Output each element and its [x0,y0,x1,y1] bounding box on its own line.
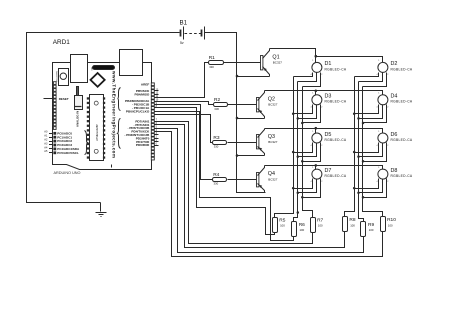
pin number 1 of D7 [312,167,314,169]
label R8 [349,217,355,223]
junction: row 2 at D3 anode [315,90,318,93]
wire: arduino pin 9 to R3 [159,115,213,143]
wire: right column blue bus to R10 [363,87,383,217]
svg-text:BC327: BC327 [268,103,278,107]
svg-text:Q1: Q1 [272,54,279,60]
rgb led D4 (RGBLED-CA) [378,95,388,105]
wire: D5 cathode pin 4 to column bus 1 [294,143,313,153]
svg-text:D3: D3 [325,94,332,100]
arduino right pin labels group PB [125,82,150,113]
svg-text:AREF: AREF [141,82,150,86]
wire: D2 cathode pin 2 to column bus 3 [363,73,387,87]
svg-text:RGBLED-CA: RGBLED-CA [325,100,347,104]
value label BC327 for Q4 [268,177,278,181]
cathode pin numbers of D7 [311,181,324,184]
value label RGBLED-CA for D4 [391,100,413,104]
rgb led D8 (RGBLED-CA) [378,169,388,179]
svg-text:R9: R9 [368,222,374,228]
wire: Q2 emitter to +5V rail [237,118,265,120]
arduino power jack [120,50,143,76]
arduino ATMEGA328P chip [90,95,104,161]
value label 100 for R10 [388,223,393,227]
wire: D8 cathode pin 3 to column bus 2 [359,179,383,193]
label D3 [325,94,332,100]
wire: D6 cathode pin 2 to column bus 3 [363,143,387,162]
wire: arduino pin 11 to R1 [159,63,209,98]
pin number 1 of D6 [378,131,380,133]
label R6 [299,222,305,228]
arduino logo diamond [91,73,105,87]
wire: D1 cathode pin 3 to column bus 2 [298,73,317,82]
arduino reference label ARD1 [53,39,70,46]
value label BC327 for Q2 [268,103,278,107]
svg-text:R8: R8 [349,217,355,223]
svg-text:ANALOG IN: ANALOG IN [75,111,79,127]
svg-text:RGBLED-CA: RGBLED-CA [325,174,347,178]
label D2 [391,61,398,67]
svg-text:R10: R10 [387,217,396,223]
cathode pin numbers of D2 [377,74,390,77]
wire: D1 cathode pin 2 to column bus 3 [303,73,321,87]
rgb led D6 (RGBLED-CA) [378,133,388,143]
resistor R2 (330) [214,103,228,107]
wire: arduino pin 7 to R5 bottom [159,108,275,235]
svg-text:BC327: BC327 [268,177,278,181]
wire: arduino pin 2 to R10 bottom [159,132,383,257]
svg-text:RGBLED-CA: RGBLED-CA [325,138,347,142]
svg-text:100: 100 [350,223,355,227]
svg-text:RGBLED-CA: RGBLED-CA [391,67,413,71]
arduino right header pins [151,83,154,160]
value label BC327 for Q1 [273,61,283,65]
rgb led D2 (RGBLED-CA) [378,62,388,72]
arduino ANALOG IN label [75,111,79,127]
label D8 [391,168,398,174]
svg-text:RGBLED-CA: RGBLED-CA [325,67,347,71]
arduino USB connector [71,55,88,83]
arduino right pin labels group PD [124,119,150,147]
svg-text:ARDUINO UNO: ARDUINO UNO [54,171,81,175]
svg-text:330: 330 [214,107,219,111]
resistor R9 (100) [361,222,366,237]
value label RGBLED-CA for D6 [391,138,413,142]
wire: R4 to Q4 base [228,179,257,181]
svg-text:Q2: Q2 [268,96,275,102]
svg-text:100: 100 [369,228,374,232]
wire: Q1 emitter to +5V rail [237,76,270,78]
value label 100 for R6 [300,228,305,232]
svg-text:100: 100 [318,224,323,228]
wire: D1 anode stub [315,57,317,63]
value label 100 for R5 [280,224,285,228]
rgb led D1 (RGBLED-CA) [312,62,322,72]
label R1 [209,55,215,61]
wire: left column red bus to R5 [275,77,294,218]
svg-text:B1: B1 [180,19,188,26]
value label RGBLED-CA for D5 [325,138,347,142]
resistor R4 (330) [213,178,227,182]
wire: arduino pin 8 to R4 [159,105,213,180]
svg-text:Q3: Q3 [268,134,275,140]
arduino ON led [93,66,115,70]
resistor R5 (100) [273,218,278,233]
pin number 1 of D8 [378,167,380,169]
value label 330 for R4 [214,182,219,186]
arduino board outline [53,63,152,170]
svg-text:5v: 5v [180,41,184,45]
label R2 [214,97,220,103]
pin number 1 of D1 [312,60,314,62]
transistor Q3 (BC327 PNP) [257,129,265,156]
svg-text:R5: R5 [279,217,285,223]
wire: D8 cathode pin 4 to column bus 1 [355,179,379,189]
junction: rail Q2 emitter [236,117,239,120]
svg-text:www.TheEngineeringProjects.com: www.TheEngineeringProjects.com [112,70,117,158]
svg-text:100: 100 [300,228,305,232]
wire: D7 cathode pin 3 to column bus 2 [298,179,317,193]
svg-text:D1: D1 [325,61,332,67]
rgb led D3 (RGBLED-CA) [312,95,322,105]
wire: D3 cathode pin 4 to column bus 1 [294,105,313,114]
value label BC327 for Q3 [268,140,278,144]
arduino bottom gnd pin stub [111,165,113,168]
wire: right column red bus to R8 [345,77,355,217]
svg-text:RESET: RESET [59,97,69,101]
wire: RESET pin stub [44,98,54,100]
junction: row 3 at D5 anode [315,127,318,130]
resistor R6 (100) [292,222,297,237]
svg-text:R7: R7 [317,217,323,223]
junction: rail Q3 emitter [236,154,239,157]
wire: battery B1 negative terminal to left frame down to ground [27,33,180,203]
transistor Q2 (BC327 PNP) [257,91,265,119]
label R3 [213,135,219,141]
wire: D7 cathode pin 4 to column bus 1 [294,179,313,189]
transistor Q4 (BC327 PNP) [257,166,265,193]
wire: D4 cathode pin 2 to column bus 3 [363,105,387,123]
cathode pin numbers of D3 [311,107,324,110]
wire: Q4 collector row 4 to D7 and D8 anodes [265,166,383,170]
transistor Q1 (BC327 PNP) [261,49,270,77]
svg-text:100: 100 [388,223,393,227]
wire: D2 cathode pin 4 to column bus 1 [355,73,379,77]
svg-text:R2: R2 [214,97,220,103]
svg-text:330: 330 [214,145,219,149]
svg-text:R4: R4 [213,172,219,178]
wire: D2 cathode pin 3 to column bus 2 [359,73,383,82]
wire: D6 cathode pin 4 to column bus 1 [355,143,379,153]
svg-text:RGBLED-CA: RGBLED-CA [391,100,413,104]
junctions: left bus joins [292,113,304,214]
resistor R8 (100) [343,217,348,232]
cathode pin numbers of D6 [377,145,390,148]
cathode pin numbers of D8 [377,181,390,184]
ground [96,203,107,217]
value label RGBLED-CA for D3 [325,100,347,104]
label Q1 [272,54,279,60]
svg-text:RGBLED-CA: RGBLED-CA [391,174,413,178]
svg-text:100: 100 [280,224,285,228]
wire: D4 cathode pin 3 to column bus 2 [359,105,383,119]
svg-text:ATMEGA328P: ATMEGA328P [95,124,99,141]
wire: D5 cathode pin 3 to column bus 2 [298,143,317,157]
value label 330 for R2 [214,107,219,111]
wire: D7 anode stub [315,166,317,170]
arduino analog group brace [85,131,88,155]
svg-text:ON: ON [91,67,93,71]
svg-text:D4: D4 [391,94,398,100]
svg-text:PB0/ICP1/CLKO: PB0/ICP1/CLKO [126,109,150,113]
arduino branding text www.TheEngineeringProjects.com [112,70,117,158]
rgb led D5 (RGBLED-CA) [312,133,322,143]
arduino left header pins [53,82,56,130]
wire: D4 cathode pin 4 to column bus 1 [355,105,379,114]
svg-text:PD0/RXD: PD0/RXD [136,143,150,147]
wire: D6 cathode pin 3 to column bus 2 [359,143,383,157]
wire: D5 anode stub [315,129,317,134]
cathode pin numbers of D1 [311,74,324,77]
label R9 [368,222,374,228]
svg-text:330: 330 [214,182,219,186]
svg-text:D7: D7 [325,168,332,174]
wire: left column blue bus to R7 [303,87,313,218]
arduino analog pins PC0-PC5 [44,131,80,155]
resistor R3 (330) [213,141,227,145]
svg-text:R6: R6 [299,222,305,228]
label Q4 [268,171,275,177]
value label RGBLED-CA for D7 [325,174,347,178]
svg-text:R3: R3 [213,135,219,141]
wire: D5 cathode pin 2 to column bus 3 [303,143,321,162]
wire: D1 cathode pin 4 to column bus 1 [294,73,313,77]
pin number 1 of D2 [378,60,380,62]
label R5 [279,217,285,223]
arduino crystal capacitor [77,87,79,96]
label D1 [325,61,332,67]
arduino right pin stubs and pin numbers [154,88,159,145]
battery B1 [181,27,205,40]
label Q3 [268,134,275,140]
arduino right pin group braces [118,88,121,111]
wire: D3 cathode pin 3 to column bus 2 [298,105,317,119]
label D5 [325,132,332,138]
wire: arduino pin 10 to R2 [159,102,214,105]
arduino ARD1 (Arduino UNO module) [44,39,159,175]
resistor R10 (100) [381,217,386,232]
value label 330 for R3 [214,145,219,149]
wire: D8 cathode pin 2 to column bus 3 [363,179,387,198]
svg-text:D8: D8 [391,168,398,174]
wire: D3 anode stub [315,91,317,95]
value label RGBLED-CA for D1 [325,67,347,71]
wire: Q2 collector row 2 to D3 and D4 anodes [265,91,383,95]
label Q2 [268,96,275,102]
wire: battery B1 positive to +5V rail feeding transistor emitters [205,33,266,193]
cathode pin numbers of D5 [311,145,324,148]
pin number 1 of D3 [312,93,314,95]
label D7 [325,168,332,174]
svg-text:330: 330 [209,65,214,69]
wire: arduino pin 3 to R9 bottom [159,129,364,253]
rgb led D7 (RGBLED-CA) [312,169,322,179]
wire: R3 to Q3 base [228,142,257,144]
junction: row 4 at D7 anode [315,164,318,167]
wire: Q1 collector row 1 to D1 and D2 anodes [270,49,383,63]
svg-text:D6: D6 [391,132,398,138]
value label 100 for R8 [350,223,355,227]
svg-text:PB4/MISO: PB4/MISO [135,92,150,96]
label R4 [213,172,219,178]
svg-text:D5: D5 [325,132,332,138]
wire: arduino pin 6 to R6 bottom [159,112,294,241]
svg-text:ARD1: ARD1 [53,39,70,46]
junction: rail Q1 emitter [236,75,239,78]
arduino board name label ARDUINO UNO [54,171,81,175]
wire: left column green bus to R6 [294,82,298,222]
wire: R1 to Q1 base [224,62,261,64]
label R7 [317,217,323,223]
value label RGBLED-CA for D2 [391,67,413,71]
wire: D7 cathode pin 2 to column bus 3 [303,179,321,198]
wire: arduino pin 5 to R7 bottom [159,122,313,244]
battery B1 value label 5v [180,41,184,45]
svg-text:PC5/ADC5/SCL: PC5/ADC5/SCL [57,151,79,155]
wire: R2 to Q2 base [228,104,257,106]
pin number 1 of D4 [378,93,380,95]
wire: right column green bus to R9 [359,82,364,222]
svg-text:BC327: BC327 [273,61,283,65]
svg-text:RGBLED-CA: RGBLED-CA [391,138,413,142]
value label 100 for R7 [318,224,323,228]
svg-text:Reset BTN: Reset BTN [55,71,58,82]
wire: Q3 emitter to +5V rail [237,155,265,157]
resistor R1 (330) [209,61,224,65]
junctions: right bus joins [353,113,364,199]
pin number 1 of D5 [312,131,314,133]
value label 100 for R9 [369,228,374,232]
battery B1 reference label [180,19,188,26]
label R10 [387,217,396,223]
cathode pin numbers of D4 [377,107,390,110]
svg-text:BC327: BC327 [268,140,278,144]
value label 330 for R1 [209,65,214,69]
arduino RESET pin label [59,97,69,101]
wire: D3 cathode pin 2 to column bus 3 [303,105,321,123]
label D6 [391,132,398,138]
value label RGBLED-CA for D8 [391,174,413,178]
resistor R7 (100) [311,218,316,233]
label D4 [391,94,398,100]
junction: row 1 at D1 anode [315,55,318,58]
wire: Q3 collector row 3 to D5 and D6 anodes [265,129,383,134]
svg-text:D2: D2 [391,61,398,67]
svg-text:R1: R1 [209,55,215,61]
svg-text:Q4: Q4 [268,171,275,177]
wire: arduino pin 4 to R8 bottom [159,125,345,248]
arduino reset button [59,69,69,86]
